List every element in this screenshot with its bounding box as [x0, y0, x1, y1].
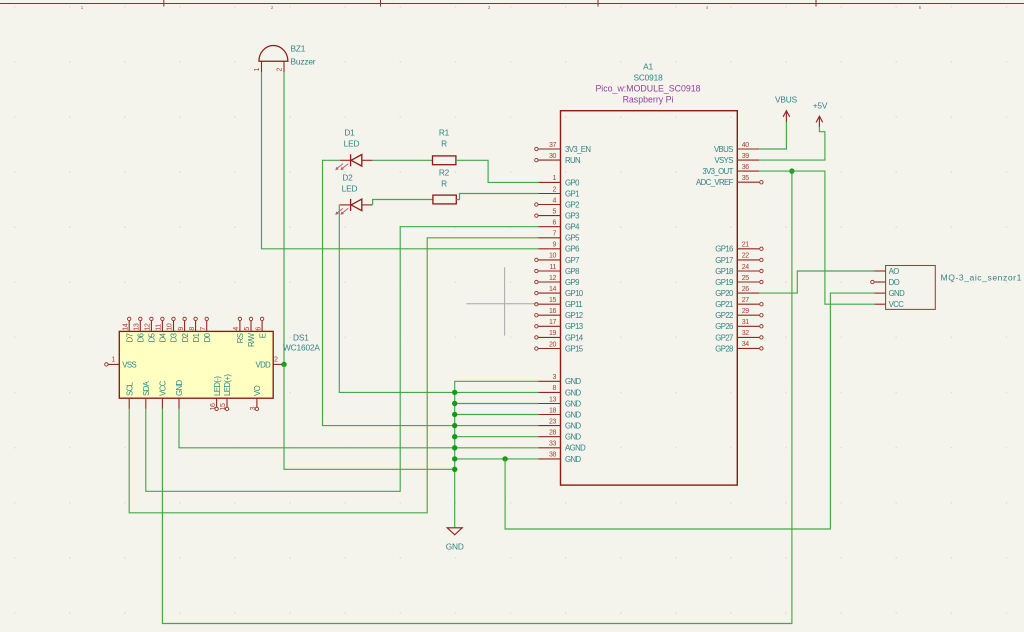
- svg-text:GP20: GP20: [715, 289, 734, 298]
- wire LCD VCC to 3V3_OUT node: [162, 171, 792, 623]
- svg-text:R1: R1: [439, 128, 450, 138]
- svg-text:LED: LED: [344, 139, 360, 149]
- svg-text:14: 14: [122, 323, 129, 330]
- svg-text:8: 8: [189, 327, 196, 331]
- wire LCD SCL to GP5: [129, 238, 538, 513]
- svg-text:VSYS: VSYS: [714, 156, 733, 165]
- svg-text:GND: GND: [565, 433, 581, 442]
- wire R2 to GP1: [456, 194, 538, 200]
- svg-text:39: 39: [742, 153, 749, 160]
- svg-text:GND: GND: [565, 422, 581, 431]
- resistor R1: [433, 128, 456, 165]
- svg-text:17: 17: [549, 319, 556, 326]
- svg-text:WC1602A: WC1602A: [283, 343, 320, 353]
- svg-text:8: 8: [553, 385, 557, 392]
- LED D2: [335, 173, 372, 215]
- svg-text:13: 13: [549, 396, 556, 403]
- wire GND bus to pin row 13: [455, 403, 539, 405]
- svg-text:15: 15: [220, 403, 227, 410]
- svg-text:28: 28: [549, 430, 556, 437]
- svg-text:D2: D2: [342, 173, 353, 183]
- LCD module DS1 WC1602A: [105, 317, 321, 410]
- svg-text:23: 23: [549, 418, 556, 425]
- wire GP20 to MQ-3 AO: [759, 271, 874, 293]
- svg-text:37: 37: [549, 142, 556, 149]
- svg-text:SDA: SDA: [142, 380, 151, 396]
- wire D2 anode to R2: [373, 200, 433, 205]
- power symbol VBUS: [775, 95, 798, 123]
- svg-text:VCC: VCC: [889, 300, 905, 309]
- svg-text:6: 6: [553, 220, 557, 227]
- svg-text:24: 24: [742, 264, 749, 271]
- power symbol +5V: [813, 101, 828, 128]
- svg-text:R2: R2: [439, 168, 450, 178]
- svg-text:9: 9: [178, 327, 185, 331]
- junction dots GND bus: [452, 390, 457, 472]
- svg-text:LED: LED: [342, 184, 358, 194]
- svg-text:VBUS: VBUS: [714, 145, 733, 154]
- svg-text:21: 21: [742, 242, 749, 249]
- svg-text:16: 16: [549, 308, 556, 315]
- svg-text:DO: DO: [889, 278, 900, 287]
- svg-text:15: 15: [549, 297, 556, 304]
- svg-text:11: 11: [550, 264, 557, 271]
- node 3V3_OUT junction: [789, 168, 794, 173]
- svg-text:30: 30: [549, 153, 556, 160]
- svg-text:GP18: GP18: [715, 267, 733, 276]
- svg-text:GND: GND: [565, 455, 581, 464]
- svg-text:4: 4: [233, 327, 240, 331]
- wire GND bus to pin row 33: [455, 447, 539, 449]
- svg-text:Pico_w:MODULE_SC0918: Pico_w:MODULE_SC0918: [595, 84, 700, 94]
- svg-text:AO: AO: [889, 267, 900, 276]
- svg-text:1: 1: [112, 357, 116, 364]
- svg-text:35: 35: [742, 175, 749, 182]
- svg-text:1: 1: [553, 175, 557, 182]
- svg-text:GP12: GP12: [565, 311, 583, 320]
- resistor R2: [433, 168, 456, 204]
- svg-text:29: 29: [742, 308, 749, 315]
- svg-text:16: 16: [210, 403, 217, 410]
- svg-text:GP14: GP14: [565, 333, 584, 342]
- svg-text:32: 32: [742, 330, 749, 337]
- svg-text:SCL: SCL: [125, 381, 134, 396]
- node VDD junction: [281, 362, 286, 367]
- svg-text:AGND: AGND: [565, 444, 586, 453]
- svg-text:GP8: GP8: [565, 267, 579, 276]
- svg-text:7: 7: [553, 231, 557, 238]
- svg-text:GP9: GP9: [565, 278, 579, 287]
- svg-text:GP3: GP3: [565, 212, 579, 221]
- wire GND bus to pin row 28: [455, 436, 539, 438]
- svg-text:3V3_EN: 3V3_EN: [565, 145, 590, 154]
- svg-text:D4: D4: [159, 332, 168, 342]
- svg-text:R: R: [441, 139, 447, 149]
- svg-text:GP17: GP17: [715, 256, 733, 265]
- sensor MQ-3_aic_senzor1: [871, 266, 1022, 310]
- svg-text:25: 25: [742, 275, 749, 282]
- A1 left pins: [535, 142, 591, 464]
- svg-text:RUN: RUN: [565, 156, 580, 165]
- wire LCD GND to bus AGND row: [179, 409, 455, 448]
- wire D1 anode to R1: [373, 159, 433, 161]
- svg-text:6: 6: [255, 327, 262, 331]
- svg-text:D1: D1: [344, 128, 355, 138]
- svg-text:D1: D1: [192, 333, 201, 342]
- svg-text:9: 9: [553, 242, 557, 249]
- svg-text:GP5: GP5: [565, 234, 580, 243]
- svg-text:E: E: [258, 333, 267, 338]
- svg-text:+5V: +5V: [813, 101, 828, 111]
- svg-text:11: 11: [156, 324, 163, 331]
- svg-text:GND: GND: [565, 399, 581, 408]
- svg-text:RS: RS: [236, 333, 245, 343]
- svg-text:GP15: GP15: [565, 344, 584, 353]
- svg-text:GP22: GP22: [715, 311, 733, 320]
- wire LCD SDA to GP4: [146, 227, 539, 492]
- svg-text:D6: D6: [137, 333, 146, 342]
- svg-text:GP6: GP6: [565, 245, 579, 254]
- svg-text:1: 1: [254, 68, 261, 72]
- svg-text:GP7: GP7: [565, 256, 579, 265]
- svg-text:20: 20: [549, 341, 556, 348]
- svg-text:GND: GND: [565, 377, 581, 386]
- svg-text:GP11: GP11: [565, 300, 582, 309]
- wire row38 to MQ-3 GND pin: [505, 293, 874, 529]
- svg-text:GP28: GP28: [715, 344, 733, 353]
- svg-text:GND: GND: [565, 410, 581, 419]
- svg-text:VO: VO: [253, 385, 262, 396]
- svg-text:GP4: GP4: [565, 223, 580, 232]
- svg-text:GND: GND: [889, 289, 905, 298]
- wire GND bus to pin row 23: [455, 425, 539, 427]
- svg-text:10: 10: [549, 253, 556, 260]
- svg-text:A1: A1: [643, 62, 653, 72]
- svg-text:Raspberry Pi: Raspberry Pi: [623, 95, 674, 105]
- svg-text:4: 4: [553, 197, 557, 204]
- svg-text:D3: D3: [170, 333, 179, 342]
- svg-text:2: 2: [276, 68, 283, 72]
- svg-text:D5: D5: [148, 332, 157, 342]
- wire 3V3_OUT to MQ-3 VCC: [759, 171, 874, 304]
- wire buzzer pin2 down to VDD node: [283, 72, 285, 364]
- svg-text:ADC_VREF: ADC_VREF: [696, 178, 734, 187]
- svg-text:GP10: GP10: [565, 289, 584, 298]
- svg-text:31: 31: [742, 319, 749, 326]
- svg-text:D7: D7: [125, 333, 134, 342]
- svg-text:GP13: GP13: [565, 322, 583, 331]
- svg-text:GND: GND: [175, 380, 184, 396]
- svg-text:GP1: GP1: [565, 189, 579, 198]
- svg-text:12: 12: [549, 275, 556, 282]
- svg-text:D2: D2: [181, 333, 190, 342]
- svg-text:14: 14: [549, 286, 556, 293]
- svg-text:7: 7: [200, 327, 207, 331]
- buzzer BZ1: [254, 44, 316, 73]
- wire D1 cathode to GND bus row23: [323, 160, 455, 425]
- svg-text:12: 12: [145, 323, 152, 330]
- svg-text:38: 38: [549, 452, 556, 459]
- ground symbol GND: [446, 528, 464, 552]
- svg-text:VCC: VCC: [159, 380, 168, 396]
- svg-text:27: 27: [742, 297, 749, 304]
- svg-text:LED(+): LED(+): [223, 374, 232, 396]
- LED D1: [335, 128, 372, 171]
- wire VBUS pin40 to symbol: [759, 122, 786, 150]
- svg-text:MQ-3_aic_senzor1: MQ-3_aic_senzor1: [941, 272, 1022, 282]
- svg-text:VSS: VSS: [122, 360, 136, 369]
- svg-text:3: 3: [553, 374, 557, 381]
- module A1 Raspberry Pi Pico SC0918: [561, 62, 738, 486]
- A1 right pins: [696, 142, 763, 353]
- svg-text:2: 2: [553, 186, 557, 193]
- svg-text:R: R: [441, 179, 447, 189]
- svg-text:19: 19: [549, 330, 556, 337]
- svg-text:2: 2: [274, 357, 278, 364]
- svg-text:10: 10: [167, 323, 174, 330]
- svg-text:BZ1: BZ1: [291, 44, 306, 54]
- svg-text:GP19: GP19: [715, 278, 733, 287]
- wire GND bus to pin row 8: [455, 391, 539, 393]
- svg-text:SC0918: SC0918: [633, 73, 663, 83]
- svg-text:D0: D0: [203, 332, 212, 342]
- svg-text:GP16: GP16: [715, 245, 733, 254]
- svg-text:LED(-): LED(-): [213, 376, 222, 396]
- svg-text:VBUS: VBUS: [775, 95, 798, 105]
- svg-text:GP26: GP26: [715, 322, 733, 331]
- wire D2 cathode to GND bus row8: [339, 205, 454, 393]
- svg-text:40: 40: [742, 142, 749, 149]
- svg-text:DS1: DS1: [293, 333, 309, 343]
- svg-text:GP0: GP0: [565, 178, 580, 187]
- svg-text:GP2: GP2: [565, 200, 579, 209]
- svg-text:34: 34: [742, 341, 749, 348]
- svg-text:Buzzer: Buzzer: [291, 57, 316, 67]
- svg-text:VDD: VDD: [256, 360, 272, 369]
- svg-text:26: 26: [742, 286, 749, 293]
- svg-text:5: 5: [244, 327, 251, 331]
- wire buzzer pin1 to GP6: [262, 72, 539, 249]
- svg-text:33: 33: [549, 441, 556, 448]
- svg-text:GND: GND: [446, 542, 464, 552]
- svg-text:R/W: R/W: [247, 332, 256, 347]
- wire R1 to GP0: [456, 160, 539, 182]
- wire VDD node to GND bus: [284, 364, 455, 469]
- wire VSYS pin39 to +5V symbol: [759, 127, 825, 161]
- svg-text:GP21: GP21: [715, 300, 733, 309]
- svg-text:3V3_OUT: 3V3_OUT: [702, 167, 733, 176]
- svg-text:18: 18: [549, 407, 556, 414]
- wire GND bus to pin row 18: [455, 414, 539, 416]
- svg-text:3: 3: [250, 407, 257, 411]
- node GND row38 junction: [502, 456, 507, 461]
- svg-text:GND: GND: [565, 388, 581, 397]
- svg-text:22: 22: [742, 253, 749, 260]
- svg-text:5: 5: [553, 208, 557, 215]
- wire GND bus vertical: [455, 381, 539, 527]
- svg-text:13: 13: [134, 323, 141, 330]
- wire GND bus to pin row 38: [455, 458, 539, 460]
- svg-text:36: 36: [742, 164, 749, 171]
- svg-text:GP27: GP27: [715, 333, 733, 342]
